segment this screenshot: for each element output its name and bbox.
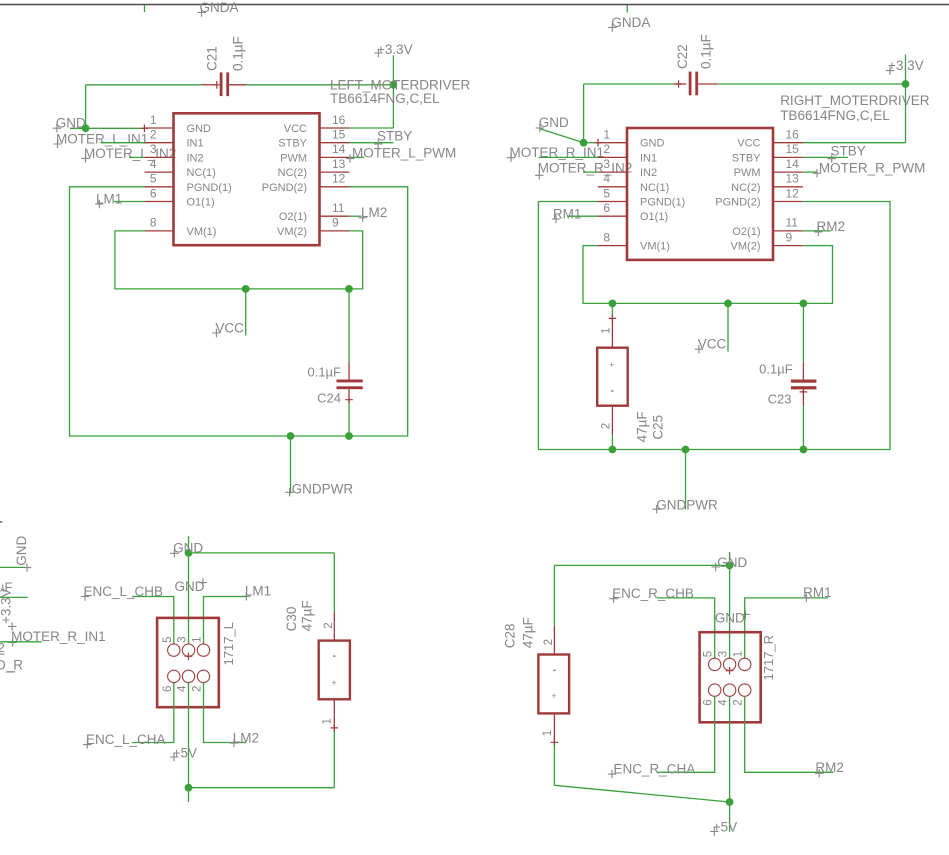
- svg-text:PWM: PWM: [734, 167, 761, 179]
- U1 pin 9 stub: [320, 230, 350, 232]
- connector 1717_L body: [157, 618, 219, 707]
- C30 pin 1 lead: [333, 699, 335, 731]
- C21 pin 2 lead: [229, 84, 246, 86]
- svg-text:D_R: D_R: [0, 658, 23, 673]
- capacitor C25 47uF body (electrolytic): [597, 348, 628, 406]
- svg-text:NC(1): NC(1): [187, 167, 216, 179]
- C25 value label 47uF: [635, 411, 650, 442]
- svg-text:2: 2: [543, 639, 555, 645]
- C21 name label: [205, 46, 220, 71]
- U1 pin 1 stub: [144, 127, 173, 129]
- wire RM2 stub (IC2 pin 11): [803, 230, 831, 232]
- svg-text:GND: GND: [640, 138, 665, 150]
- wire +5V vertical (J1 pad 4): [188, 683, 190, 803]
- C28 pin 1 lead: [553, 713, 555, 745]
- C25 pin 2 lead: [611, 406, 613, 435]
- 1717_L reference label: [221, 622, 236, 665]
- svg-text:O2(1): O2(1): [279, 211, 307, 223]
- wire vertical C22-left down to GND junction (right): [583, 84, 585, 143]
- wire MOTER_L_IN2 to IC1 pin 3: [129, 156, 144, 158]
- svg-text:NC(2): NC(2): [731, 182, 760, 194]
- svg-text:+3.3V: +3.3V: [0, 588, 13, 624]
- C25 pin 1 lead: [611, 318, 613, 348]
- wire GND to C30: [189, 552, 335, 554]
- svg-text:6: 6: [150, 186, 157, 200]
- svg-text:14: 14: [332, 142, 346, 156]
- wire MOTER_R_PWM stub: [803, 171, 818, 173]
- svg-text:5: 5: [150, 172, 157, 186]
- capacitor C21 0.1uF plates: [220, 72, 223, 96]
- svg-text:PGND(1): PGND(1): [187, 182, 232, 194]
- label +3.3V rotated (edge): [0, 588, 13, 624]
- wire GND diagonal (right block): [540, 129, 584, 143]
- svg-text:GNDPWR: GNDPWR: [292, 481, 354, 496]
- C30 pin 1 marker: [331, 724, 339, 732]
- wire RM1 to IC2 pin 6: [568, 215, 598, 217]
- svg-text:TB6614FNG,C,EL: TB6614FNG,C,EL: [780, 108, 890, 123]
- svg-text:MOTER_R_IN2: MOTER_R_IN2: [538, 161, 633, 176]
- svg-text:6: 6: [703, 699, 715, 705]
- wire +3.3V vertical (right): [905, 55, 907, 143]
- U2 pin 16 stub: [773, 142, 803, 144]
- net GNDA wire stub (right): [626, 5, 628, 12]
- junction +5V (right): [726, 798, 734, 806]
- junction C24 bottom: [345, 432, 353, 440]
- C25 pin 1 number: [601, 328, 613, 334]
- junction GND net (right): [580, 139, 588, 147]
- svg-text:12: 12: [332, 172, 346, 186]
- svg-text:GND: GND: [717, 555, 747, 570]
- C28 pin 2 lead: [553, 626, 555, 655]
- svg-text:5: 5: [162, 636, 174, 642]
- svg-text:2: 2: [601, 423, 613, 429]
- svg-text:1717_L: 1717_L: [221, 622, 236, 665]
- wire MOTER_R_IN1 to IC2 pin 2: [539, 156, 599, 158]
- 1717_L pad 3 pin marker: [185, 653, 193, 661]
- junction VCC tap (left): [242, 285, 250, 293]
- wire STBY net (right): [803, 156, 848, 158]
- svg-text:IN1: IN1: [187, 138, 204, 150]
- svg-text:3: 3: [150, 142, 157, 156]
- svg-text:14: 14: [786, 157, 800, 171]
- U1 pin 5 stub: [144, 186, 173, 188]
- junction GNDPWR stub (left): [287, 432, 295, 440]
- IC U1 TB6614FNG body: [174, 113, 320, 245]
- wire MOTER_L_IN1 to IC1 pin 2: [101, 142, 145, 144]
- junction C25 tap: [609, 300, 617, 308]
- wire VCC stub (left): [245, 289, 247, 336]
- wire C25 bottom to GNDPWR bus: [611, 435, 613, 450]
- svg-text:IN1: IN1: [640, 152, 657, 164]
- wire GND net to C22 left: [584, 83, 674, 85]
- svg-text:5: 5: [703, 651, 715, 657]
- svg-text:VCC: VCC: [737, 138, 760, 150]
- svg-text:GNDA: GNDA: [611, 15, 650, 30]
- label GND rotated (edge): [14, 536, 29, 566]
- U2 pin 8 stub: [598, 245, 627, 247]
- svg-text:2: 2: [733, 699, 745, 705]
- capacitor C23 0.1uF plates: [791, 380, 817, 383]
- wire C22 to +3.3V net (right): [718, 83, 906, 85]
- IC1 pin 1 connection marker: [141, 125, 149, 133]
- junction GNDPWR stub (right): [682, 446, 690, 454]
- svg-text:2: 2: [192, 686, 204, 692]
- svg-text:+5V: +5V: [173, 745, 197, 760]
- svg-text:11: 11: [786, 216, 799, 230]
- svg-text:NC(2): NC(2): [278, 167, 307, 179]
- svg-text:11: 11: [332, 201, 345, 215]
- C24 pin lead bottom: [348, 389, 350, 403]
- C22 value label 0.1uF: [699, 34, 714, 69]
- wire GND to C30 pin 2: [333, 553, 335, 611]
- svg-text:12: 12: [786, 186, 800, 200]
- svg-text:VM(1): VM(1): [187, 226, 217, 238]
- svg-text:GND: GND: [175, 579, 205, 594]
- junction VCC tap (right): [724, 300, 732, 308]
- wire C21 to +3.3V net: [246, 84, 393, 86]
- U2 pin 6 stub: [598, 215, 627, 217]
- wire LM1 to J1 pad 1: [204, 597, 247, 644]
- C23 pin lead top: [802, 363, 804, 380]
- svg-text:9: 9: [332, 216, 339, 230]
- svg-text:C30: C30: [284, 607, 299, 632]
- wire VCC stub (right): [727, 303, 729, 351]
- svg-text:4: 4: [718, 699, 730, 706]
- wire VM(1) IC1 pin 8 loop: [115, 231, 363, 289]
- svg-text:STBY: STBY: [278, 138, 307, 150]
- wire GND to C28: [554, 564, 729, 566]
- wire RM2 from J2 pad 2: [745, 696, 834, 772]
- svg-text:13: 13: [332, 157, 346, 171]
- junction +3.3V net (right): [902, 80, 910, 88]
- svg-text:15: 15: [786, 142, 800, 156]
- wire to C25 pin 1: [611, 303, 613, 317]
- wire GND down to C28 pin 2: [553, 565, 555, 625]
- svg-text:ENC_L_CHA: ENC_L_CHA: [86, 732, 166, 747]
- C23 pin 1 marker: [800, 388, 808, 396]
- svg-text:4: 4: [177, 685, 189, 692]
- C25 pin 2 number: [601, 423, 613, 429]
- junction C24 tap: [345, 285, 353, 293]
- wire ENC_L_CHB to J1 pad 5: [132, 597, 174, 644]
- C23 pin lead bottom: [802, 389, 804, 406]
- C30 polarity marks: [333, 655, 336, 656]
- wire ENC_L_CHA from J1 pad 6: [132, 683, 174, 743]
- C22 pin 1 marker: [675, 80, 683, 88]
- wire GND to IC1 pin 1: [70, 127, 144, 129]
- wire (edge, +3.3V net): [0, 596, 28, 598]
- svg-text:+: +: [551, 691, 556, 701]
- svg-text:MOTER_R_PWM: MOTER_R_PWM: [819, 160, 926, 175]
- connector 1717_L pin numbers: [162, 636, 204, 692]
- svg-text:C28: C28: [503, 624, 518, 649]
- svg-text:2: 2: [603, 142, 610, 156]
- U2 pin 14 stub: [773, 171, 803, 173]
- C21 pin 1 lead: [202, 84, 217, 86]
- svg-text:0.1µF: 0.1µF: [307, 364, 341, 379]
- svg-text:1: 1: [192, 636, 204, 642]
- svg-text:47µF: 47µF: [300, 600, 315, 631]
- wire C23 bottom to GNDPWR bus: [802, 406, 804, 450]
- wire GND vertical into J1 pad 3: [188, 536, 190, 644]
- C22 pin 2 lead: [698, 83, 718, 85]
- connector 1717_L pads: [168, 644, 210, 683]
- svg-text:3: 3: [718, 651, 730, 657]
- svg-text:6: 6: [162, 686, 174, 692]
- U1 pin 8 stub: [144, 230, 173, 232]
- svg-text:C22: C22: [675, 44, 690, 69]
- U1 pin 14 stub: [320, 156, 350, 158]
- svg-text:ENC_R_CHA: ENC_R_CHA: [614, 762, 696, 777]
- capacitor C30 47uF body (electrolytic): [319, 641, 350, 700]
- wire LM1 to IC1 pin 6: [114, 201, 144, 203]
- wire GNDPWR stub (left): [290, 436, 292, 494]
- svg-text:3: 3: [603, 157, 610, 171]
- U1 pin 11 stub: [320, 215, 350, 217]
- svg-text:16: 16: [786, 128, 800, 142]
- wire GND junction to IC2 pin 1: [584, 142, 598, 144]
- svg-text:GNDPWR: GNDPWR: [656, 497, 718, 512]
- svg-text:8: 8: [603, 230, 610, 244]
- svg-text:1: 1: [603, 128, 610, 142]
- wire MOTER_R_IN1 (edge): [0, 641, 42, 643]
- svg-text:ENC_R_CHB: ENC_R_CHB: [612, 586, 694, 601]
- wire GND vertical into J2 pad 3: [729, 552, 731, 658]
- svg-text:2: 2: [150, 128, 157, 142]
- wire diagonal C28 to +5V junction (J2): [554, 785, 729, 802]
- C21 value label 0.1uF: [231, 36, 246, 71]
- svg-text:+3.3V: +3.3V: [377, 42, 413, 57]
- svg-text:VM(1): VM(1): [640, 241, 670, 253]
- svg-text:2: 2: [323, 622, 335, 628]
- svg-text:MOTER_L_IN1: MOTER_L_IN1: [56, 131, 148, 146]
- C22 name label: [675, 44, 690, 69]
- junction GND (J1): [185, 549, 193, 557]
- U2 pin 3 stub: [598, 171, 627, 173]
- svg-text:STBY: STBY: [377, 129, 412, 144]
- U2 pin 5 stub: [598, 201, 627, 203]
- U1 pin 3 stub: [144, 156, 173, 158]
- junction C23 tap: [800, 300, 808, 308]
- capacitor C28 47uF body (electrolytic): [538, 655, 569, 714]
- svg-text:STBY: STBY: [831, 143, 866, 158]
- svg-text:VCC: VCC: [284, 123, 307, 135]
- wire VM(1) IC2 pin 8 loop: [583, 246, 833, 304]
- wire PGND loop (IC1 pin5-pin12 to GNDPWR bus): [70, 187, 408, 436]
- svg-text:PGND(2): PGND(2): [262, 182, 307, 194]
- svg-text:+5V: +5V: [713, 820, 737, 835]
- svg-text:15: 15: [332, 128, 346, 142]
- wire LM2 stub (IC1 pin 11): [349, 215, 361, 217]
- U2 pin 4 stub: [598, 186, 627, 188]
- svg-text:PGND(2): PGND(2): [715, 197, 760, 209]
- wire +5V vertical (J2 pad 4): [729, 696, 731, 831]
- svg-text:3: 3: [177, 636, 189, 642]
- U1 pin 2 stub: [144, 142, 173, 144]
- svg-text:GND: GND: [715, 611, 745, 626]
- wire IC1 VCC pin16 to +3.3V: [349, 127, 393, 129]
- C28 name label: [503, 624, 518, 649]
- wire +3.3V vertical: [392, 55, 394, 128]
- junction +5V (left): [185, 784, 193, 792]
- svg-text:VM(2): VM(2): [731, 241, 761, 253]
- IC U2 TB6614FNG body: [627, 128, 773, 260]
- IC2 pin 1 connection marker: [594, 139, 602, 147]
- svg-text:VM(2): VM(2): [277, 226, 307, 238]
- svg-text:PGND(1): PGND(1): [640, 197, 685, 209]
- svg-text:+: +: [331, 678, 336, 688]
- C28 polarity marks: [553, 670, 556, 671]
- svg-text:47µF: 47µF: [635, 411, 650, 442]
- svg-text:4: 4: [603, 172, 610, 186]
- C28 pin 1 marker: [551, 739, 559, 747]
- wire GND (edge): [0, 566, 25, 568]
- U2 pin 13 stub: [773, 186, 803, 188]
- C21 pin 1 marker: [213, 81, 221, 89]
- wire RM1 to J2 pad 1: [745, 598, 828, 658]
- svg-text:C24: C24: [317, 391, 341, 406]
- svg-text:4: 4: [150, 157, 157, 171]
- frame border line (top): [0, 4, 949, 6]
- connector 1717_R body: [700, 632, 761, 722]
- svg-text:TB6614FNG,C,EL: TB6614FNG,C,EL: [330, 91, 440, 106]
- svg-text:MOTER_L_PWM: MOTER_L_PWM: [352, 146, 456, 161]
- wire LM2 from J1 pad 2: [204, 683, 247, 743]
- wire C24 bottom to GNDPWR bus: [348, 403, 350, 436]
- connector 1717_R pin numbers: [703, 651, 745, 706]
- svg-text:NC(1): NC(1): [640, 182, 669, 194]
- svg-text:C23: C23: [768, 391, 792, 406]
- svg-text:5: 5: [603, 186, 610, 200]
- U2 pin 15 stub: [773, 156, 803, 158]
- svg-text:1: 1: [601, 328, 613, 334]
- svg-text:8: 8: [150, 216, 157, 230]
- svg-text:2: 2: [0, 640, 5, 655]
- C30 pin 1 number: [321, 718, 333, 724]
- svg-text:0.1µF: 0.1µF: [231, 36, 246, 71]
- svg-text:1: 1: [542, 730, 554, 736]
- svg-text:GND: GND: [14, 536, 29, 566]
- C30 value label 47uF: [300, 600, 315, 631]
- junction +3.3V net: [390, 81, 398, 89]
- svg-text:IN2: IN2: [640, 167, 657, 179]
- svg-text:1: 1: [150, 113, 157, 127]
- U1 pin 4 stub: [144, 171, 173, 173]
- U1 pin 15 stub: [320, 142, 350, 144]
- wire ENC_R_CHB to J2 pad 5: [657, 598, 715, 658]
- wire GNDPWR stub (right): [685, 450, 687, 510]
- svg-text:1717_R: 1717_R: [761, 635, 776, 681]
- wire C28 bottom: [553, 745, 555, 785]
- wire vertical C21-left down to GND junction: [85, 85, 87, 129]
- svg-text:STBY: STBY: [732, 152, 761, 164]
- C24 pin lead top: [348, 362, 350, 380]
- junction GND net: [82, 124, 90, 132]
- svg-text:1: 1: [733, 651, 745, 657]
- svg-text:16: 16: [332, 113, 346, 127]
- wire to C24 top: [348, 289, 350, 362]
- C25 name label: [651, 415, 666, 440]
- U1 pin 13 stub: [320, 171, 350, 173]
- wire C30 bottom to +5V bus: [333, 731, 335, 788]
- wire MOTER_L_PWM stub: [349, 156, 364, 158]
- wire IC2 VCC pin16 to +3.3V: [803, 142, 906, 144]
- wire PGND loop (IC2 pin5-pin12 to GNDPWR bus right): [538, 202, 890, 450]
- junction C23 bottom: [800, 446, 808, 454]
- U1 pin 6 stub: [144, 201, 173, 203]
- svg-text:MOTER_L_IN2: MOTER_L_IN2: [84, 146, 176, 161]
- U2 pin 2 stub: [598, 156, 627, 158]
- C30 name label: [284, 607, 299, 632]
- wire +5V bus to C30 bottom: [189, 787, 335, 789]
- svg-text:13: 13: [786, 172, 800, 186]
- 1717_R reference label: [761, 635, 776, 681]
- capacitor C24 0.1uF plates: [337, 380, 363, 383]
- C24 pin 1 marker: [345, 396, 353, 404]
- U2 pin 1 stub: [598, 142, 627, 144]
- svg-text:PWM: PWM: [280, 152, 307, 164]
- U1 pin 16 stub: [320, 127, 350, 129]
- svg-text:O1(1): O1(1): [640, 211, 668, 223]
- U2 pin 11 stub: [773, 230, 803, 232]
- wire GND net to C21 left: [86, 84, 202, 86]
- svg-text:47µF: 47µF: [520, 617, 535, 648]
- 1717_R pad 3 pin marker: [726, 667, 734, 675]
- svg-text:C25: C25: [651, 415, 666, 440]
- C28 pin 1 number: [542, 730, 554, 736]
- C28 pin 2 number: [543, 639, 555, 645]
- svg-text:GND: GND: [187, 123, 212, 135]
- svg-text:+: +: [609, 360, 614, 370]
- svg-text:RIGHT_MOTERDRIVER: RIGHT_MOTERDRIVER: [780, 93, 930, 108]
- C30 pin 2 number: [323, 622, 335, 628]
- C25 pin 1 marker: [609, 315, 617, 323]
- U1 pin 12 stub: [320, 186, 350, 188]
- svg-text:O1(1): O1(1): [187, 197, 215, 209]
- wire MOTER_R_IN2 to IC2 pin 3: [583, 171, 598, 173]
- net GNDA wire stub (left): [144, 5, 146, 12]
- svg-text:1: 1: [321, 718, 333, 724]
- svg-text:6: 6: [603, 201, 610, 215]
- svg-text:9: 9: [786, 230, 793, 244]
- wire STBY net (left): [349, 142, 393, 144]
- C30 pin 2 lead: [333, 611, 335, 640]
- svg-text:0.1µF: 0.1µF: [699, 34, 714, 69]
- svg-text:C21: C21: [205, 46, 220, 71]
- junction C25 bottom: [609, 446, 617, 454]
- junction GND (J2): [726, 562, 734, 570]
- svg-text:O2(1): O2(1): [732, 226, 760, 238]
- C22 pin 1 lead: [674, 83, 687, 85]
- wire to C23 top: [802, 303, 804, 362]
- edge fragment tick: [0, 521, 2, 523]
- connector 1717_R pads: [709, 658, 751, 696]
- U2 pin 12 stub: [773, 201, 803, 203]
- U2 pin 9 stub: [773, 245, 803, 247]
- svg-text:IN2: IN2: [187, 152, 204, 164]
- C28 value label 47uF: [520, 617, 535, 648]
- svg-text:0.1µF: 0.1µF: [759, 361, 793, 376]
- wire ENC_R_CHA from J2 pad 6: [657, 696, 715, 772]
- capacitor C22 0.1uF plates: [689, 72, 692, 96]
